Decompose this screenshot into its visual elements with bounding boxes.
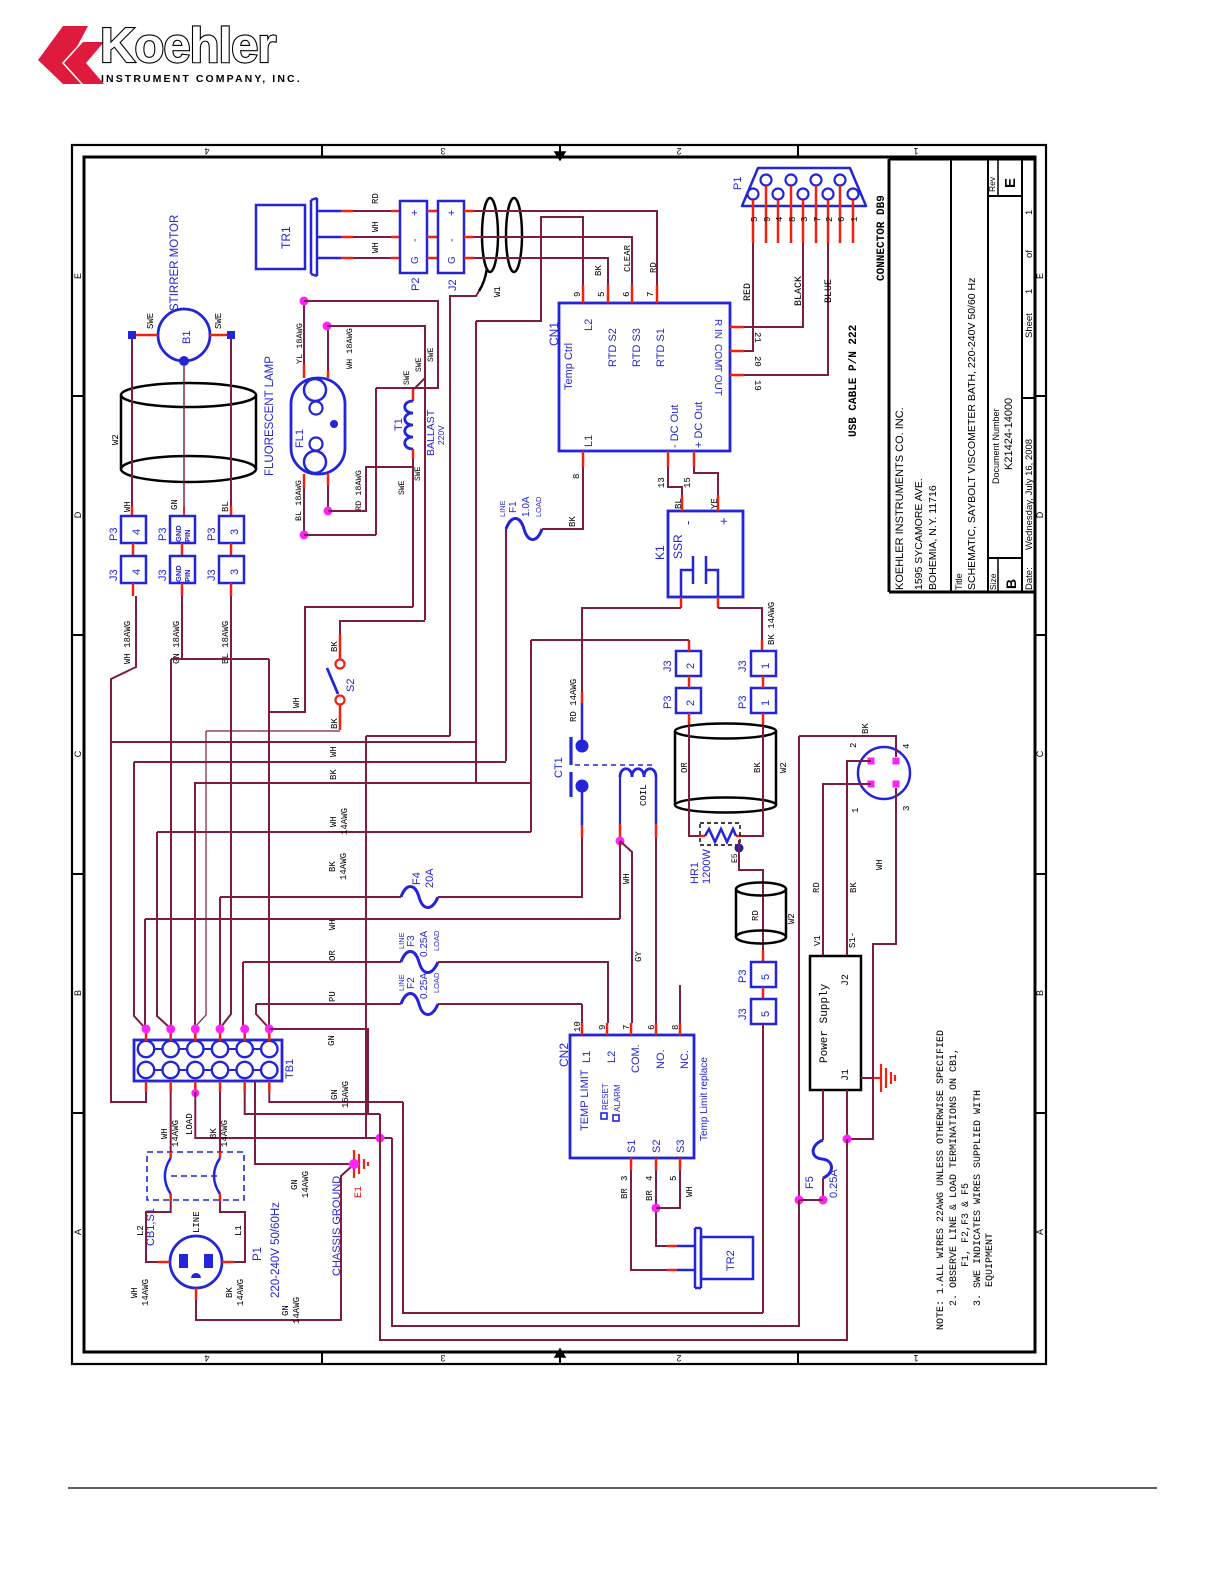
- wire: [327, 486, 329, 511]
- wire: [304, 301, 438, 388]
- wire: [412, 459, 414, 607]
- svg-text:4: 4: [204, 146, 209, 156]
- svg-text:1: 1: [913, 146, 918, 156]
- plug P1: [170, 1236, 222, 1288]
- svg-text:WH: WH: [123, 501, 133, 512]
- svg-text:COIL: COIL: [639, 784, 649, 806]
- svg-text:1.0A: 1.0A: [521, 496, 532, 517]
- svg-text:4: 4: [204, 1353, 209, 1363]
- power supply box: [810, 956, 861, 1090]
- svg-text:RD: RD: [751, 910, 761, 921]
- wire: [474, 258, 608, 285]
- wire: [474, 237, 632, 285]
- svg-text:YE: YE: [710, 498, 720, 509]
- wire: [744, 243, 803, 327]
- wire: [220, 1202, 245, 1262]
- ground E1: [354, 1150, 368, 1178]
- node F5 junctions: [795, 1196, 804, 1205]
- FL1 pin RD: [327, 474, 330, 486]
- svg-text:Date:: Date:: [1024, 567, 1035, 590]
- svg-text:14AWG: 14AWG: [301, 1171, 311, 1198]
- cable W1 loops: [479, 198, 522, 291]
- svg-text:J3: J3: [108, 569, 120, 581]
- P3-J3 red stubs: [133, 543, 231, 556]
- svg-text:Wednesday, July 16, 2008: Wednesday, July 16, 2008: [1024, 439, 1035, 550]
- svg-text:B1: B1: [181, 331, 193, 344]
- svg-text:FLUORESCENT LAMP: FLUORESCENT LAMP: [264, 356, 276, 476]
- svg-text:3: 3: [902, 806, 912, 811]
- svg-text:BL 18AWG: BL 18AWG: [294, 480, 304, 521]
- wire: [256, 1004, 267, 1026]
- svg-text:RTD S2: RTD S2: [607, 328, 619, 367]
- wire: [438, 962, 608, 1023]
- node FL1 BL junction: [300, 531, 309, 540]
- wire: [170, 659, 172, 1029]
- wire: [145, 918, 620, 920]
- svg-text:LINE: LINE: [498, 500, 507, 517]
- wire: [799, 736, 896, 757]
- svg-text:0.25A: 0.25A: [419, 931, 430, 957]
- svg-text:SCHEMATIC, SAYBOLT VISCOMETER: SCHEMATIC, SAYBOLT VISCOMETER BATH, 220-…: [966, 278, 978, 590]
- svg-text:GN 18AWG: GN 18AWG: [172, 621, 182, 664]
- svg-text:-: -: [409, 238, 421, 242]
- wire: [531, 639, 689, 641]
- wire: [668, 467, 682, 495]
- cable W2 middle cylinder: [675, 724, 776, 813]
- svg-text:3: 3: [229, 529, 241, 535]
- cable W2 small cylinder: [736, 883, 786, 944]
- svg-text:CHASSIS GROUND: CHASSIS GROUND: [331, 1176, 343, 1276]
- connector P3 pin3: [219, 516, 244, 543]
- wire: [269, 607, 413, 712]
- svg-text:4: 4: [902, 744, 912, 749]
- wire: [846, 1090, 848, 1139]
- svg-text:Koehler: Koehler: [100, 19, 276, 73]
- wire: [245, 1092, 380, 1114]
- svg-text:P2: P2: [410, 278, 422, 291]
- connector V1 round: [858, 747, 910, 799]
- svg-text:SWE: SWE: [414, 466, 423, 481]
- svg-text:B: B: [1035, 990, 1045, 996]
- wire: [111, 741, 476, 743]
- connector J3 pin2: [676, 651, 701, 676]
- svg-text:9: 9: [763, 217, 773, 222]
- svg-text:3. SWE INDICATES WIRES SUPPLIE: 3. SWE INDICATES WIRES SUPPLIED WITH: [973, 1090, 984, 1306]
- wire: [268, 659, 270, 1029]
- CN1 pin stubs: [582, 285, 585, 303]
- wire: [304, 534, 376, 536]
- svg-text:GN: GN: [290, 1179, 300, 1190]
- svg-text:15: 15: [683, 477, 693, 488]
- footer rule: [68, 1487, 1157, 1489]
- wire: [694, 467, 718, 495]
- svg-text:RD: RD: [371, 193, 381, 204]
- svg-text:21: 21: [752, 332, 762, 343]
- wire: [183, 366, 185, 506]
- svg-text:BL: BL: [674, 498, 684, 509]
- wire: [582, 608, 681, 692]
- svg-text:J3: J3: [737, 1008, 749, 1020]
- svg-text:J3: J3: [662, 660, 674, 672]
- wire: [327, 326, 329, 370]
- node E1 junction: [349, 1159, 359, 1169]
- Koehler logo red chevron inner: [64, 42, 104, 84]
- frame zone ticks: [321, 145, 323, 157]
- svg-text:WH 18AWG: WH 18AWG: [123, 621, 133, 664]
- fuse F3: [401, 952, 438, 973]
- wire: [230, 339, 232, 506]
- svg-text:INSTRUMENT COMPANY, INC.: INSTRUMENT COMPANY, INC.: [101, 73, 302, 85]
- svg-text:P3: P3: [206, 528, 218, 541]
- IC CN2 temp limit: [570, 1035, 694, 1158]
- drawing frame inner border: [84, 157, 1035, 1352]
- svg-text:NOTE: 1.ALL WIRES 22AWG UNLESS: NOTE: 1.ALL WIRES 22AWG UNLESS OTHERWISE…: [936, 1030, 947, 1330]
- svg-text:2: 2: [676, 146, 681, 156]
- svg-text:J2: J2: [841, 974, 852, 986]
- fuse F2: [401, 994, 438, 1015]
- wire: [414, 378, 425, 389]
- svg-text:14AWG: 14AWG: [220, 1120, 230, 1147]
- svg-text:J2: J2: [447, 279, 459, 291]
- svg-text:2. OBSERVE LINE & LOAD TERMINA: 2. OBSERVE LINE & LOAD TERMINATIONS ON C…: [949, 1048, 960, 1306]
- svg-text:BK: BK: [329, 769, 339, 780]
- svg-text:J3: J3: [737, 660, 749, 672]
- TR1 lead segments: [341, 210, 353, 213]
- svg-text:8: 8: [671, 1025, 681, 1030]
- svg-text:+ DC Out: + DC Out: [693, 402, 705, 448]
- svg-text:1: 1: [851, 808, 861, 813]
- wire: [366, 735, 450, 737]
- wire: [741, 726, 763, 836]
- connector J3 pin1: [751, 651, 776, 676]
- relay K1 SSR: [668, 511, 743, 597]
- svg-text:SWE: SWE: [146, 313, 156, 329]
- transistor TR1: [256, 198, 341, 276]
- svg-text:14AWG: 14AWG: [171, 1120, 181, 1147]
- wire: [822, 1178, 824, 1200]
- svg-text:WH: WH: [292, 697, 302, 708]
- svg-text:RED: RED: [743, 283, 754, 301]
- svg-text:NC.: NC.: [679, 1050, 691, 1069]
- wire: [392, 1138, 799, 1326]
- wire: [744, 243, 753, 351]
- svg-text:PIN: PIN: [183, 529, 192, 542]
- P2-J2 red stubs: [427, 211, 438, 258]
- svg-text:BLACK: BLACK: [794, 276, 805, 306]
- svg-text:2: 2: [849, 743, 859, 748]
- FL1 pin YL: [303, 364, 306, 378]
- connector J3 pin3: [219, 556, 244, 583]
- svg-text:NO.: NO.: [655, 1049, 667, 1069]
- svg-text:1595 SYCAMORE AVE.: 1595 SYCAMORE AVE.: [913, 478, 925, 590]
- wire: [438, 1003, 582, 1005]
- transistor TR2: [677, 1228, 753, 1288]
- svg-text:BK: BK: [753, 762, 763, 773]
- svg-text:5: 5: [669, 1176, 679, 1181]
- svg-text:WH: WH: [622, 873, 632, 884]
- svg-text:3: 3: [440, 146, 445, 156]
- svg-text:F4: F4: [411, 872, 423, 885]
- svg-text:COM.: COM.: [630, 1044, 642, 1073]
- svg-text:F2: F2: [406, 977, 417, 989]
- wire: [194, 783, 196, 1029]
- wire: [157, 832, 170, 1028]
- wire: [134, 761, 506, 763]
- svg-text:D: D: [73, 511, 83, 518]
- wire: [799, 1199, 823, 1201]
- thermostat CT1: [569, 737, 572, 797]
- wire: [171, 658, 269, 660]
- svg-text:-: -: [446, 238, 458, 242]
- CN2 top stubs: [581, 1023, 584, 1035]
- svg-text:F1, F2,F3 & F5: F1, F2,F3 & F5: [961, 1183, 972, 1267]
- svg-text:LOAD: LOAD: [534, 496, 543, 517]
- wire: [656, 1170, 667, 1246]
- svg-text:TB1: TB1: [284, 1059, 296, 1079]
- svg-text:SSR: SSR: [671, 534, 685, 559]
- svg-text:5: 5: [750, 217, 760, 222]
- svg-text:YL 18AWG: YL 18AWG: [295, 323, 305, 364]
- svg-text:BK 14AWG: BK 14AWG: [767, 602, 777, 645]
- svg-text:S3: S3: [675, 1140, 687, 1153]
- svg-text:COM: COM: [712, 344, 723, 367]
- wire: [619, 841, 621, 919]
- svg-text:PIN: PIN: [183, 569, 192, 582]
- Koehler logo red chevron outer: [38, 26, 89, 84]
- svg-text:GND: GND: [174, 525, 183, 542]
- switch S2: [336, 660, 345, 669]
- svg-text:- DC Out: - DC Out: [669, 405, 681, 448]
- svg-text:P3: P3: [737, 696, 749, 709]
- circuit breaker CB1,S1: [147, 1152, 244, 1200]
- svg-text:CLEAR: CLEAR: [623, 244, 633, 272]
- svg-text:TR1: TR1: [279, 226, 293, 249]
- wire: [131, 339, 133, 506]
- svg-text:LINE: LINE: [192, 1211, 202, 1233]
- svg-text:14AWG: 14AWG: [236, 1279, 246, 1306]
- inductor T1 ballast: [412, 389, 415, 401]
- svg-text:8: 8: [788, 217, 798, 222]
- svg-text:P3: P3: [108, 528, 120, 541]
- svg-text:WH: WH: [329, 816, 339, 827]
- wire: [744, 243, 828, 375]
- svg-text:BK: BK: [568, 516, 578, 527]
- wire: [530, 640, 532, 832]
- svg-text:2: 2: [676, 1353, 681, 1363]
- svg-text:BL 18AWG: BL 18AWG: [221, 621, 231, 664]
- fuse F4: [401, 887, 438, 908]
- motor B1: [158, 309, 210, 361]
- svg-text:D: D: [1035, 511, 1045, 518]
- svg-text:Sheet: Sheet: [1024, 313, 1035, 338]
- wire: [328, 467, 413, 511]
- svg-text:GN: GN: [281, 1305, 291, 1316]
- svg-text:L1: L1: [583, 435, 595, 447]
- svg-text:WH 18AWG: WH 18AWG: [345, 328, 355, 369]
- node coil left junction: [616, 837, 625, 846]
- svg-text:W2: W2: [787, 913, 797, 924]
- CN2 bottom stubs: [630, 1158, 633, 1170]
- svg-text:1: 1: [760, 663, 772, 669]
- svg-text:SWE: SWE: [427, 347, 436, 362]
- svg-text:GN: GN: [330, 1089, 340, 1100]
- connector P3 gnd pin: [170, 516, 195, 543]
- svg-text:BOHEMIA, N.Y. 11716: BOHEMIA, N.Y. 11716: [927, 485, 939, 590]
- wire: [303, 488, 305, 535]
- svg-text:4: 4: [131, 569, 143, 575]
- frame centering arrow bottom: [555, 1349, 565, 1362]
- node FL1 RD junction: [324, 507, 333, 516]
- svg-text:RD 14AWG: RD 14AWG: [569, 679, 579, 722]
- svg-text:FL1: FL1: [294, 429, 306, 448]
- svg-text:1: 1: [1024, 210, 1035, 215]
- svg-text:9: 9: [598, 1025, 608, 1030]
- wire: [194, 782, 531, 784]
- svg-text:J3: J3: [157, 569, 169, 581]
- svg-text:E: E: [73, 273, 83, 279]
- svg-text:LINE: LINE: [397, 974, 406, 991]
- wire: [403, 1102, 763, 1313]
- wire: [219, 1092, 221, 1152]
- svg-text:B: B: [1003, 579, 1019, 589]
- svg-text:220-240V 50/60Hz: 220-240V 50/60Hz: [270, 1202, 282, 1298]
- wire: [219, 897, 221, 1029]
- fuse F1: [506, 519, 542, 540]
- svg-text:Power Supply: Power Supply: [819, 983, 831, 1063]
- svg-text:14AWG: 14AWG: [141, 1279, 151, 1306]
- svg-text:8: 8: [572, 474, 582, 479]
- svg-text:KOEHLER INSTRUMENTS CO. INC.: KOEHLER INSTRUMENTS CO. INC.: [894, 407, 906, 590]
- svg-text:RD: RD: [812, 882, 822, 893]
- svg-text:W1: W1: [493, 286, 503, 297]
- svg-text:4: 4: [775, 217, 785, 222]
- svg-text:Rev: Rev: [987, 176, 997, 192]
- svg-text:P3: P3: [737, 970, 749, 983]
- svg-text:C: C: [1035, 750, 1045, 757]
- svg-text:14AWG: 14AWG: [292, 1297, 302, 1324]
- svg-text:Temp Ctrl: Temp Ctrl: [563, 343, 575, 390]
- FL1 pin BL: [303, 474, 306, 488]
- svg-text:RTD S3: RTD S3: [631, 328, 643, 367]
- wire: [340, 621, 425, 634]
- wire: [656, 1170, 680, 1208]
- svg-text:1: 1: [913, 1353, 918, 1363]
- wire: [220, 896, 401, 898]
- svg-text:1: 1: [850, 217, 860, 222]
- svg-text:BK: BK: [330, 641, 340, 652]
- wire: [375, 388, 377, 535]
- svg-text:20A: 20A: [424, 868, 436, 888]
- svg-text:13: 13: [657, 477, 667, 488]
- svg-text:P3: P3: [157, 528, 169, 541]
- wire: [542, 467, 583, 529]
- wire: [476, 217, 583, 321]
- svg-text:F1: F1: [508, 501, 519, 513]
- wire: [847, 761, 871, 956]
- FL1 pin WH: [327, 370, 330, 378]
- svg-text:K21424-14000: K21424-14000: [1003, 398, 1015, 470]
- svg-text:LOAD: LOAD: [432, 930, 441, 951]
- wire: [170, 1092, 172, 1152]
- svg-text:GY: GY: [634, 951, 644, 962]
- svg-text:RESET: RESET: [601, 1083, 610, 1110]
- svg-text:220V: 220V: [436, 425, 446, 445]
- svg-text:+: +: [409, 210, 421, 216]
- svg-text:5: 5: [760, 1011, 772, 1017]
- svg-text:R IN: R IN: [712, 319, 723, 339]
- svg-text:BK: BK: [328, 861, 338, 872]
- svg-text:CT1: CT1: [553, 757, 565, 778]
- svg-text:6: 6: [647, 1025, 657, 1030]
- svg-text:B: B: [73, 990, 83, 996]
- svg-text:3: 3: [620, 1176, 630, 1181]
- node FL1 WH junction: [323, 322, 332, 331]
- wire: [256, 1003, 401, 1005]
- svg-text:2: 2: [685, 663, 697, 669]
- svg-text:5: 5: [760, 974, 772, 980]
- cable W2 left cylinder: [121, 383, 256, 482]
- connector P3 pin5: [762, 950, 765, 962]
- wire: [438, 896, 583, 898]
- wire: [475, 321, 477, 783]
- svg-text:A: A: [1035, 1229, 1045, 1235]
- inductor relay COIL: [620, 769, 656, 777]
- CT1 top lead: [581, 703, 584, 741]
- wire: [269, 1092, 403, 1102]
- svg-text:WH: WH: [328, 919, 338, 930]
- svg-text:RTD S1: RTD S1: [655, 328, 667, 367]
- svg-text:S2: S2: [651, 1140, 663, 1153]
- wire: [195, 1092, 392, 1138]
- svg-text:7: 7: [813, 217, 823, 222]
- wire: [861, 1077, 874, 1079]
- svg-text:S1: S1: [626, 1140, 638, 1153]
- wire: [181, 596, 183, 659]
- svg-text:W2: W2: [111, 434, 121, 445]
- terminal block TB1: [134, 1040, 282, 1081]
- TB1 bottom stubs: [145, 1081, 148, 1092]
- CT1 bottom lead: [581, 791, 584, 825]
- wire: [255, 1081, 349, 1164]
- svg-text:RD: RD: [649, 262, 659, 273]
- svg-text:E: E: [1002, 178, 1019, 188]
- node S2-S3 junction: [652, 1204, 661, 1213]
- wire: [631, 1170, 667, 1270]
- svg-text:PU: PU: [328, 991, 338, 1002]
- svg-text:OR: OR: [328, 950, 338, 961]
- svg-text:T1: T1: [393, 418, 405, 431]
- wire: [718, 608, 762, 640]
- svg-text:W2: W2: [779, 762, 789, 773]
- svg-text:16AWG: 16AWG: [341, 1081, 351, 1108]
- connector P3 pin1: [751, 688, 776, 713]
- svg-text:3: 3: [800, 217, 810, 222]
- svg-text:USB CABLE P/N 222: USB CABLE P/N 222: [848, 325, 860, 437]
- svg-text:SWE: SWE: [415, 357, 424, 372]
- svg-text:WH: WH: [130, 1287, 140, 1298]
- svg-text:BK: BK: [225, 1287, 235, 1298]
- svg-text:J3: J3: [206, 569, 218, 581]
- drawing frame outer border: [72, 145, 1046, 1364]
- svg-text:14AWG: 14AWG: [340, 808, 350, 835]
- svg-text:E: E: [1035, 273, 1045, 279]
- svg-text:2: 2: [685, 700, 697, 706]
- svg-text:P1: P1: [732, 177, 744, 190]
- svg-text:C: C: [73, 750, 83, 757]
- wire: [581, 1004, 583, 1023]
- svg-text:CN2: CN2: [557, 1043, 571, 1067]
- svg-text:WH: WH: [371, 221, 381, 232]
